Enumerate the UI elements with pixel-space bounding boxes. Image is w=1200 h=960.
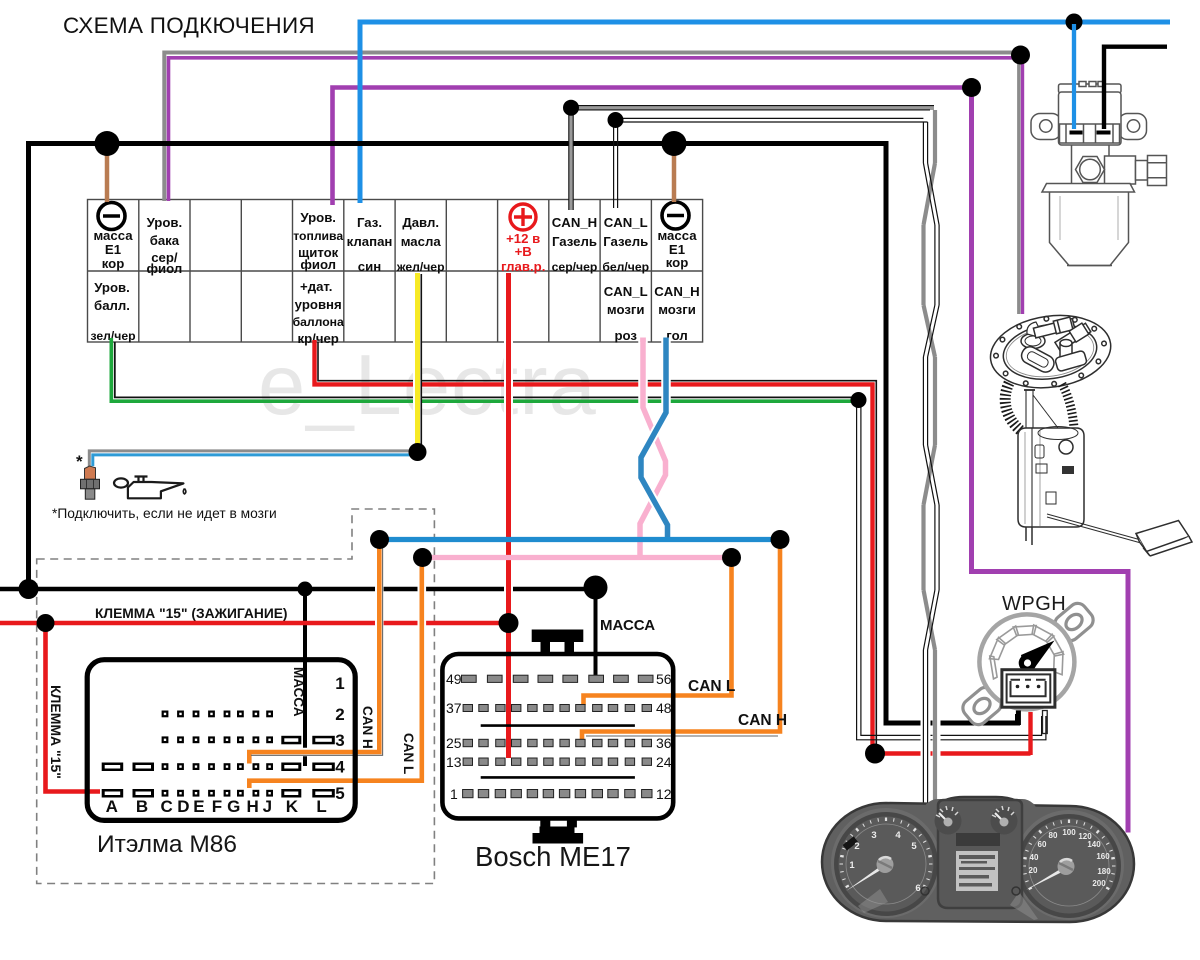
svg-text:4: 4 (895, 830, 901, 841)
svg-text:CAN_H: CAN_H (654, 284, 699, 299)
svg-text:5: 5 (335, 784, 344, 803)
svg-text:200: 200 (1092, 879, 1106, 888)
svg-text:Уров.: Уров. (147, 215, 183, 230)
svg-text:180: 180 (1097, 867, 1111, 876)
svg-text:1: 1 (335, 674, 344, 693)
svg-text:12: 12 (656, 786, 672, 802)
svg-text:Уров.: Уров. (300, 210, 336, 225)
svg-text:фиол: фиол (300, 257, 336, 272)
svg-text:МАССА: МАССА (600, 617, 655, 634)
svg-text:A: A (106, 797, 118, 816)
svg-text:масла: масла (401, 234, 442, 249)
svg-text:140: 140 (1087, 840, 1101, 849)
svg-text:20: 20 (1029, 866, 1038, 875)
svg-text:Газель: Газель (603, 234, 648, 249)
svg-text:1: 1 (849, 860, 855, 871)
svg-text:МАССА: МАССА (291, 667, 306, 717)
svg-text:CAN L: CAN L (688, 678, 735, 695)
svg-text:жел/чер: жел/чер (396, 260, 445, 274)
svg-text:син: син (358, 259, 381, 274)
svg-text:Газ.: Газ. (357, 215, 382, 230)
svg-text:WPGH: WPGH (1002, 593, 1066, 615)
svg-text:КЛЕММА "15" (ЗАЖИГАНИЕ): КЛЕММА "15" (ЗАЖИГАНИЕ) (95, 606, 288, 621)
svg-text:КЛЕММА "15": КЛЕММА "15" (48, 685, 64, 779)
svg-text:глав.р.: глав.р. (501, 259, 545, 274)
svg-text:Давл.: Давл. (402, 215, 439, 230)
svg-text:бел/чер: бел/чер (602, 260, 649, 274)
svg-text:56: 56 (656, 671, 672, 687)
svg-text:5: 5 (911, 841, 917, 852)
svg-text:6: 6 (915, 883, 920, 894)
svg-text:*Подключить, если не идет в мо: *Подключить, если не идет в мозги (52, 506, 277, 521)
svg-text:клапан: клапан (347, 234, 393, 249)
svg-text:1: 1 (450, 786, 458, 802)
svg-text:Уров.: Уров. (94, 280, 130, 295)
svg-text:*: * (76, 452, 83, 471)
svg-text:Газель: Газель (552, 234, 597, 249)
svg-text:CAN_L: CAN_L (604, 284, 648, 299)
svg-text:мозги: мозги (607, 302, 645, 317)
svg-text:100: 100 (1062, 828, 1076, 837)
svg-text:+дат.: +дат. (300, 279, 332, 294)
svg-text:2: 2 (854, 841, 859, 852)
svg-text:масса: масса (93, 228, 133, 243)
svg-text:K: K (286, 797, 299, 816)
svg-text:фиол: фиол (147, 261, 183, 276)
svg-text:Bosch ME17: Bosch ME17 (475, 841, 631, 872)
svg-text:B: B (136, 797, 148, 816)
svg-text:CAN H: CAN H (738, 712, 787, 729)
svg-text:балл.: балл. (94, 298, 130, 313)
svg-text:80: 80 (1049, 831, 1058, 840)
svg-text:36: 36 (656, 735, 672, 751)
svg-text:Е1: Е1 (105, 242, 121, 257)
svg-text:CAN_H: CAN_H (552, 215, 597, 230)
svg-text:баллона: баллона (293, 315, 344, 329)
svg-text:160: 160 (1096, 852, 1110, 861)
svg-text:H: H (246, 797, 258, 816)
svg-text:25: 25 (446, 735, 462, 751)
svg-text:40: 40 (1030, 853, 1039, 862)
svg-text:масса: масса (657, 228, 697, 243)
svg-text:L: L (316, 797, 326, 816)
svg-text:кор: кор (666, 255, 689, 270)
svg-text:24: 24 (656, 754, 672, 770)
svg-text:37: 37 (446, 700, 462, 716)
svg-text:бака: бака (150, 233, 180, 248)
svg-text:топлива: топлива (293, 229, 343, 243)
svg-text:уровня: уровня (295, 297, 342, 312)
svg-text:Итэлма М86: Итэлма М86 (97, 831, 237, 858)
svg-text:кор: кор (102, 256, 125, 271)
svg-text:G: G (227, 797, 240, 816)
svg-text:CAN L: CAN L (401, 733, 416, 774)
svg-text:2: 2 (335, 705, 344, 724)
svg-text:+В: +В (515, 244, 532, 259)
svg-text:CAN H: CAN H (360, 706, 375, 749)
svg-text:4: 4 (335, 758, 345, 777)
svg-text:CAN_L: CAN_L (604, 215, 648, 230)
svg-text:3: 3 (335, 731, 344, 750)
svg-text:мозги: мозги (658, 302, 696, 317)
svg-text:C: C (160, 797, 172, 816)
svg-text:D: D (177, 797, 189, 816)
svg-text:сер/чер: сер/чер (552, 260, 598, 274)
svg-text:49: 49 (446, 671, 462, 687)
svg-text:F: F (212, 797, 222, 816)
svg-text:48: 48 (656, 700, 672, 716)
svg-text:СХЕМА ПОДКЮЧЕНИЯ: СХЕМА ПОДКЮЧЕНИЯ (63, 13, 315, 38)
svg-text:13: 13 (446, 754, 462, 770)
svg-text:3: 3 (871, 830, 876, 841)
svg-text:роз: роз (614, 328, 637, 343)
svg-text:60: 60 (1038, 840, 1047, 849)
svg-text:J: J (263, 797, 272, 816)
svg-text:E: E (193, 797, 204, 816)
